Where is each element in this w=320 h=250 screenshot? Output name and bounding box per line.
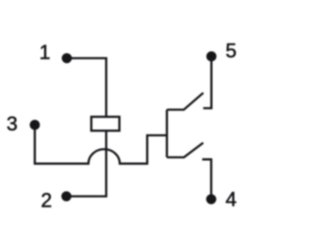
svg-text:1: 1 <box>39 42 50 64</box>
svg-text:2: 2 <box>41 190 52 212</box>
switch blade S1 (to pin5) <box>167 93 203 110</box>
wire pin1 to coil top <box>67 58 106 117</box>
terminal dot pin4 <box>206 194 216 204</box>
terminal dot pin1 <box>62 53 72 63</box>
wire switch common link <box>166 110 168 158</box>
relay coil K1 <box>91 117 119 131</box>
svg-text:3: 3 <box>7 113 18 135</box>
wire coil bottom to pin2 <box>66 131 106 197</box>
wire pin3 to switch common with crossover hump <box>35 125 167 164</box>
terminal dot pin3 <box>30 120 40 130</box>
svg-text:4: 4 <box>225 189 236 211</box>
wire pin4 to fixed contact <box>202 159 211 199</box>
svg-text:5: 5 <box>225 40 236 62</box>
terminal dot pin2 <box>61 191 71 201</box>
wire pin5 to fixed contact <box>203 56 211 108</box>
terminal dot pin5 <box>206 51 216 61</box>
switch blade S2 (to pin4) <box>167 143 203 158</box>
